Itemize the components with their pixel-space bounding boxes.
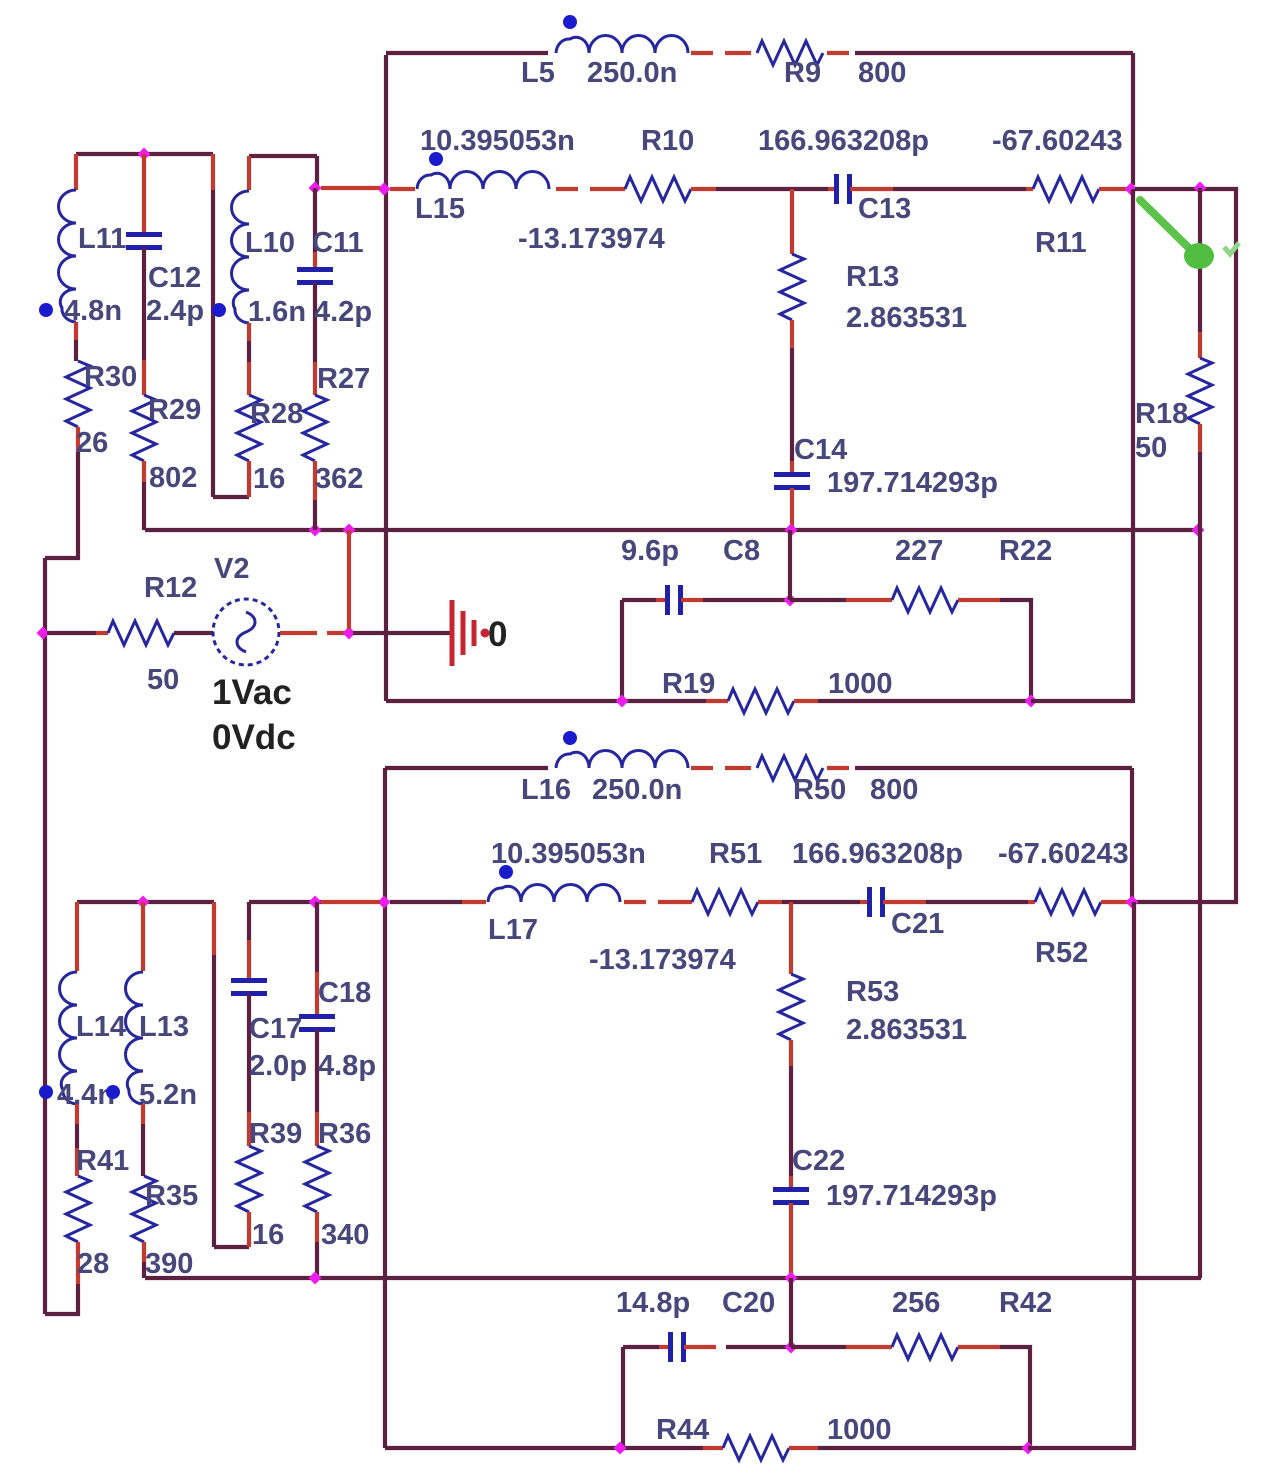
svg-text:9.6p: 9.6p xyxy=(621,535,679,567)
capacitor C13 xyxy=(837,174,850,204)
svg-text:V2: V2 xyxy=(214,553,249,585)
svg-text:1000: 1000 xyxy=(828,668,893,700)
wire red stub R36 top xyxy=(315,1112,319,1146)
wire red stub R53 top xyxy=(789,902,793,974)
svg-text:-67.60243: -67.60243 xyxy=(998,838,1129,870)
wire R18 column upper xyxy=(1198,188,1202,332)
wire R35 bottom to bottom rail xyxy=(142,1262,146,1278)
svg-text:R53: R53 xyxy=(846,976,899,1008)
ground bar 1 xyxy=(450,600,455,666)
svg-text:2.863531: 2.863531 xyxy=(846,1014,967,1046)
wire red stub R30 bottom xyxy=(76,427,80,452)
svg-text:R12: R12 xyxy=(144,572,197,604)
wire red stub right of R52 xyxy=(1101,900,1128,904)
svg-text:L11: L11 xyxy=(78,223,126,255)
source V2 circle xyxy=(213,599,279,665)
inductor L11 xyxy=(59,190,77,322)
wire red stub R19 right xyxy=(794,699,818,703)
wire R30 bottom to left column xyxy=(45,452,78,558)
svg-text:256: 256 xyxy=(892,1287,940,1319)
L16 pin dot xyxy=(563,731,577,745)
svg-text:1000: 1000 xyxy=(827,1414,892,1446)
svg-text:5.2n: 5.2n xyxy=(139,1079,197,1111)
resistor R44 xyxy=(723,1436,789,1460)
svg-text:-67.60243: -67.60243 xyxy=(992,125,1123,157)
wire red stub R35 bottom xyxy=(142,1242,146,1262)
node junction R19 right xyxy=(1025,695,1038,708)
svg-text:L17: L17 xyxy=(488,914,538,946)
wire L13 network return vertical xyxy=(212,955,216,1247)
wire red stub R53 bottom xyxy=(789,1040,793,1066)
resistor R51 xyxy=(692,890,758,914)
svg-text:R13: R13 xyxy=(846,261,899,293)
inductor L5 xyxy=(556,36,688,54)
inductor L17 xyxy=(488,885,620,903)
wire L17 row lead xyxy=(390,900,462,904)
wire bridge to R39 bottom xyxy=(214,1245,249,1249)
node junction rail-C14 xyxy=(785,524,798,537)
svg-text:C12: C12 xyxy=(148,262,201,294)
wire C20 row left xyxy=(623,1345,659,1349)
wire left outer vertical (input node column) xyxy=(384,55,388,701)
wire R44 row right corner up xyxy=(1028,902,1134,1448)
wire from C21 to R52 xyxy=(926,900,1028,904)
wire C17 to R39 xyxy=(247,994,251,1112)
svg-text:L10: L10 xyxy=(245,227,295,259)
svg-text:R35: R35 xyxy=(145,1180,198,1212)
wire R18 column lower xyxy=(1198,452,1202,530)
wire red stub R28 top xyxy=(247,362,251,395)
wire red stub C11 xyxy=(313,252,317,269)
wire R12 to V2 xyxy=(174,631,213,635)
svg-text:R28: R28 xyxy=(250,398,303,430)
svg-text:-13.173974: -13.173974 xyxy=(518,223,665,255)
capacitor C18 xyxy=(299,1017,335,1030)
wire red stub R44 left xyxy=(703,1446,723,1450)
resistor R27 xyxy=(303,395,327,461)
wire R44 row right xyxy=(818,1446,1028,1450)
wire red stub R39 top xyxy=(247,1112,251,1146)
wire top right vertical down to R11 node xyxy=(1131,53,1135,185)
wire red stub R28 bottom xyxy=(247,461,251,497)
svg-text:R52: R52 xyxy=(1035,937,1088,969)
L17 pin dot xyxy=(499,865,513,879)
node junction C18 top xyxy=(309,896,322,909)
wire top rail left segment xyxy=(386,51,548,55)
wire red stub C22 bottom xyxy=(789,1203,793,1274)
wire red stub R19 left xyxy=(706,699,728,703)
svg-text:166.963208p: 166.963208p xyxy=(792,838,963,870)
wire L13 to R35 xyxy=(141,1124,145,1176)
wire C8 to node xyxy=(703,598,790,602)
wire R44 row left xyxy=(385,1446,703,1450)
capacitor C21 xyxy=(870,887,883,917)
svg-text:R30: R30 xyxy=(84,361,137,393)
wire right vertical down to R52 node xyxy=(1130,768,1134,898)
wire red stub return vertical top xyxy=(211,154,215,190)
wire C8 row left xyxy=(622,598,656,602)
wire red stub R13 top xyxy=(790,189,794,254)
wire red stub R41 top xyxy=(75,1148,79,1176)
ground bar 3 xyxy=(472,620,477,646)
wire R27 bottom to rail xyxy=(313,500,317,530)
wire red stub R42 left xyxy=(846,1345,892,1349)
svg-text:802: 802 xyxy=(149,462,197,494)
wire red dash right of R9 xyxy=(827,51,849,55)
svg-text:197.714293p: 197.714293p xyxy=(827,467,998,499)
wire red stub right of C21 xyxy=(883,900,926,904)
node junction L13 top xyxy=(137,896,150,909)
svg-text:340: 340 xyxy=(321,1219,369,1251)
svg-text:4.4n: 4.4n xyxy=(57,1079,115,1111)
svg-text:250.0n: 250.0n xyxy=(587,57,677,89)
wire red stub to L17 xyxy=(462,900,486,904)
wire R13 to C14 xyxy=(790,348,794,461)
wire C12 to R29 xyxy=(142,248,146,360)
wire red stub V2 right xyxy=(280,631,317,635)
svg-text:4.8p: 4.8p xyxy=(318,1050,376,1082)
svg-text:16: 16 xyxy=(253,463,285,495)
inductor L15 xyxy=(417,172,549,190)
wire from R10 to C13 xyxy=(716,187,828,191)
node junction R19 row / C8 branch xyxy=(616,695,629,708)
wire R19 row left xyxy=(386,699,706,703)
svg-text:800: 800 xyxy=(870,774,918,806)
wire red stub to L15 xyxy=(390,187,415,191)
wire C20 row right corner xyxy=(1000,1347,1030,1448)
wire red stub R42 right xyxy=(958,1345,1000,1349)
node junction rail-V2 column xyxy=(343,524,356,537)
resistor R30 xyxy=(66,361,90,427)
wire C8 node up to rail node xyxy=(788,530,792,600)
resistor R9 xyxy=(757,41,823,65)
wire L11/C12 top xyxy=(76,152,213,156)
svg-text:R41: R41 xyxy=(76,1145,129,1177)
wire R36 bottom to rail xyxy=(315,1242,319,1278)
wire red stub C12 top xyxy=(142,154,146,234)
capacitor C8 xyxy=(668,585,681,615)
node junction R44 right xyxy=(1022,1442,1035,1455)
source V2 sine symbol xyxy=(237,612,255,652)
node junction C12 top xyxy=(138,148,151,161)
wire red stub left of R52 xyxy=(1028,900,1035,904)
wire C8 row right corner xyxy=(1000,600,1031,701)
wire red stub L14 top xyxy=(75,902,79,971)
svg-text:166.963208p: 166.963208p xyxy=(758,125,929,157)
wire L10/C11 top xyxy=(249,154,317,158)
wire red stub R44 right xyxy=(789,1446,818,1450)
wire red stub C8 left xyxy=(656,598,667,602)
wire C18 column top xyxy=(315,902,319,972)
svg-text:L16: L16 xyxy=(521,774,571,806)
wire red stub R27 top xyxy=(313,362,317,395)
svg-text:362: 362 xyxy=(315,463,363,495)
resistor R28 xyxy=(237,395,261,461)
wire C12 network return vertical xyxy=(211,190,215,497)
wire C17 column top xyxy=(247,902,251,940)
wire red stub R39 bottom xyxy=(247,1212,251,1247)
wire node to R42 xyxy=(791,1345,846,1349)
node junction bottom rail-C18 xyxy=(309,1272,322,1285)
svg-text:2.863531: 2.863531 xyxy=(846,302,967,334)
wire red stub R29 top xyxy=(142,360,146,395)
capacitor C22 xyxy=(773,1190,809,1203)
svg-text:R51: R51 xyxy=(709,838,762,870)
resistor R35 xyxy=(132,1176,156,1242)
svg-text:2.4p: 2.4p xyxy=(146,295,204,327)
wire R29 bottom to rail xyxy=(142,482,146,530)
wire C8 left vertical xyxy=(620,600,624,701)
wire output node to R19 loop vertical xyxy=(1031,189,1133,701)
resistor R29 xyxy=(132,395,156,461)
svg-text:L15: L15 xyxy=(415,193,465,225)
wire red stub C8 right xyxy=(681,598,703,602)
svg-text:C14: C14 xyxy=(794,434,847,466)
wire red stub L10 bottom xyxy=(247,323,251,341)
svg-text:197.714293p: 197.714293p xyxy=(826,1180,997,1212)
wire red stub L14 bottom xyxy=(75,1104,79,1124)
ground dot xyxy=(481,629,490,638)
wire red stub L13 bottom xyxy=(141,1104,145,1124)
L11 pin dot xyxy=(39,303,53,317)
wire red stub R13 bottom xyxy=(790,320,794,348)
probe cursor check xyxy=(1224,243,1239,254)
capacitor C12 xyxy=(126,235,162,248)
wire C20 left vertical xyxy=(621,1347,625,1448)
node junction C8 row center xyxy=(784,594,797,607)
wire red stub C20 left xyxy=(659,1345,670,1349)
node junction R52 output xyxy=(1126,896,1139,909)
svg-text:R11: R11 xyxy=(1035,227,1087,259)
wire red dashes between L16 and R50 xyxy=(691,766,751,770)
wire red stub R22 right xyxy=(958,598,1000,602)
resistor R41 xyxy=(66,1176,90,1242)
inductor L16 xyxy=(556,751,688,769)
capacitor C11 xyxy=(297,270,333,283)
wire red dashes between L17 and R51 xyxy=(624,900,692,904)
svg-text:R10: R10 xyxy=(641,125,694,157)
wire V2 row left xyxy=(47,631,96,635)
wire red dash right of R50 xyxy=(827,766,849,770)
wire red stub R22 left xyxy=(846,598,892,602)
wire L14 to R41 xyxy=(75,1124,79,1148)
svg-text:R18: R18 xyxy=(1135,398,1188,430)
resistor R36 xyxy=(305,1146,329,1212)
wire R53 to C22 xyxy=(789,1066,793,1176)
resistor R18 xyxy=(1188,358,1212,424)
wire red stub R12 left xyxy=(96,631,108,635)
svg-text:1.6n: 1.6n xyxy=(248,296,306,328)
wire from C13 to R11 xyxy=(893,187,1026,191)
wire node to R22 xyxy=(790,598,846,602)
wire V2 node up to rail xyxy=(347,530,351,629)
wire mid rail xyxy=(145,528,1198,532)
wire red stub left of R11 xyxy=(1026,187,1033,191)
wire bridge to R28 bottom xyxy=(213,495,249,499)
svg-text:C21: C21 xyxy=(891,908,944,940)
probe cursor blob xyxy=(1184,243,1214,269)
wire red stub L11 bottom xyxy=(74,322,78,340)
wire bottom block left vertical xyxy=(383,768,387,1448)
svg-text:R9: R9 xyxy=(784,57,821,89)
capacitor C14 xyxy=(774,475,810,488)
svg-text:0: 0 xyxy=(488,615,507,654)
node junction R44 row / C20 branch xyxy=(614,1442,627,1455)
wire red link C18 to L17 row xyxy=(321,900,380,904)
svg-text:R36: R36 xyxy=(318,1118,371,1150)
svg-text:26: 26 xyxy=(76,427,108,459)
wire from R51 to C21 xyxy=(782,900,860,904)
resistor R11 xyxy=(1033,177,1099,201)
probe cursor line xyxy=(1140,200,1192,251)
svg-text:28: 28 xyxy=(77,1248,109,1280)
svg-text:C13: C13 xyxy=(858,193,911,225)
resistor R12 xyxy=(108,621,174,645)
wire red stub R41 bottom xyxy=(76,1242,80,1284)
svg-text:0Vdc: 0Vdc xyxy=(212,718,296,757)
svg-text:227: 227 xyxy=(895,535,943,567)
svg-text:50: 50 xyxy=(1135,432,1167,464)
svg-text:16: 16 xyxy=(252,1219,284,1251)
wire red stub right of R51 xyxy=(758,900,782,904)
wire red stub into C21 xyxy=(860,900,869,904)
wire red stub C14 bottom xyxy=(790,488,794,527)
wire red dashes between L5 and R9 xyxy=(691,51,751,55)
wire red stub C20 right xyxy=(684,1345,716,1349)
capacitor C17 xyxy=(231,981,267,994)
wire red stub L11 top xyxy=(74,154,78,190)
wire red stub R18 top xyxy=(1198,332,1202,358)
wire C20 node up to bottom rail node xyxy=(789,1278,793,1347)
wire C11 to R27 xyxy=(313,283,317,362)
svg-text:C11: C11 xyxy=(312,227,364,259)
wire red stub C17 xyxy=(247,940,251,980)
wire red dashes between L15 and R10 xyxy=(556,187,625,191)
wire right column rail to bottom rail xyxy=(1198,530,1202,1278)
node junction L17 row left xyxy=(378,896,391,909)
wire red stub C22 top xyxy=(789,1176,793,1189)
wire red stub C14 top xyxy=(790,461,794,474)
wire red stub L10 top xyxy=(247,156,251,190)
wire top rail right segment xyxy=(855,51,1133,55)
svg-text:250.0n: 250.0n xyxy=(592,774,682,806)
wire red stub into C13 xyxy=(828,187,836,191)
node junction rail-C11 column xyxy=(309,524,322,537)
svg-text:2.0p: 2.0p xyxy=(249,1050,307,1082)
svg-text:390: 390 xyxy=(145,1248,193,1280)
svg-text:C20: C20 xyxy=(722,1287,775,1319)
svg-text:10.395053n: 10.395053n xyxy=(491,838,646,870)
svg-text:R42: R42 xyxy=(999,1287,1052,1319)
svg-text:C8: C8 xyxy=(723,535,760,567)
svg-text:800: 800 xyxy=(858,57,906,89)
resistor R13 xyxy=(780,254,804,320)
wire C20 to node xyxy=(726,1345,791,1349)
capacitor C20 xyxy=(671,1332,684,1362)
node junction C20 row center xyxy=(785,1341,798,1354)
svg-text:L5: L5 xyxy=(521,57,555,89)
wire red link C11 to L15 row xyxy=(321,186,380,190)
node junction L15 row left xyxy=(378,183,391,196)
svg-text:-13.173974: -13.173974 xyxy=(589,944,736,976)
node junction V2 output xyxy=(343,627,356,640)
node junction C11 tap xyxy=(309,182,322,195)
wire far left vertical xyxy=(43,558,47,1314)
node junction R18 top xyxy=(1194,182,1207,195)
wire red stub right of C13 xyxy=(850,187,893,191)
svg-text:R44: R44 xyxy=(656,1414,709,1446)
svg-text:R50: R50 xyxy=(793,774,846,806)
svg-text:R27: R27 xyxy=(317,363,370,395)
svg-text:14.8p: 14.8p xyxy=(616,1287,690,1319)
svg-text:R22: R22 xyxy=(999,535,1052,567)
L10 pin dot xyxy=(212,303,226,317)
node junction rail-R18 xyxy=(1192,524,1205,537)
L5 pin dot xyxy=(563,15,577,29)
ground bar 2 xyxy=(461,611,466,655)
resistor R53 xyxy=(779,974,803,1040)
L15 pin dot xyxy=(429,152,443,166)
inductor L13 xyxy=(126,972,144,1104)
wire L10 to R28 xyxy=(247,341,251,362)
wire red stub right of R10 xyxy=(691,187,716,191)
resistor R52 xyxy=(1035,890,1101,914)
wire bottom top rail right segment xyxy=(855,766,1132,770)
wire red stub R27 bottom xyxy=(313,461,317,500)
resistor R10 xyxy=(625,177,691,201)
wire red stub C18 xyxy=(315,972,319,1016)
wire red stub right of R11 xyxy=(1099,187,1127,191)
node junction R11 output xyxy=(1125,183,1138,196)
resistor R22 xyxy=(892,588,958,612)
svg-text:R39: R39 xyxy=(249,1118,302,1150)
wire C17/C18 top xyxy=(249,900,321,904)
inductor L10 xyxy=(232,191,250,323)
svg-text:1Vac: 1Vac xyxy=(212,673,292,712)
wire red stub L13 top xyxy=(141,902,145,971)
svg-text:C17: C17 xyxy=(249,1013,302,1045)
svg-text:10.395053n: 10.395053n xyxy=(420,125,575,157)
wire bottom top rail left segment xyxy=(385,766,548,770)
wire L11 to R30 xyxy=(74,340,78,361)
L14 pin dot xyxy=(39,1085,53,1099)
wire red stub R29 bottom xyxy=(142,461,146,482)
resistor R39 xyxy=(237,1146,261,1212)
wire red stub R36 bottom xyxy=(315,1212,319,1242)
svg-text:L13: L13 xyxy=(139,1011,189,1043)
wire C11 column xyxy=(313,188,317,252)
wire V2 node to ground xyxy=(353,631,450,635)
wire bottom rail xyxy=(145,1276,1201,1280)
resistor R50 xyxy=(757,756,823,780)
node junction bottom rail-C22 xyxy=(785,1272,798,1285)
wire L14/L13 top xyxy=(77,900,214,904)
wire C18 to R36 xyxy=(315,1030,319,1112)
wire R19 row right xyxy=(818,699,1031,703)
L13 pin dot xyxy=(106,1085,120,1099)
svg-text:L14: L14 xyxy=(76,1011,126,1043)
svg-text:4.8n: 4.8n xyxy=(64,295,122,327)
svg-text:C18: C18 xyxy=(318,977,371,1009)
wire red dash V2 to node xyxy=(327,631,345,635)
inductor L14 xyxy=(60,972,78,1104)
wire red stub return vertical bottom xyxy=(212,902,216,955)
resistor R19 xyxy=(728,689,794,713)
svg-text:R29: R29 xyxy=(148,394,201,426)
wire C11 column top xyxy=(315,156,319,188)
node junction V2 row left xyxy=(37,627,50,640)
svg-text:50: 50 xyxy=(147,664,179,696)
